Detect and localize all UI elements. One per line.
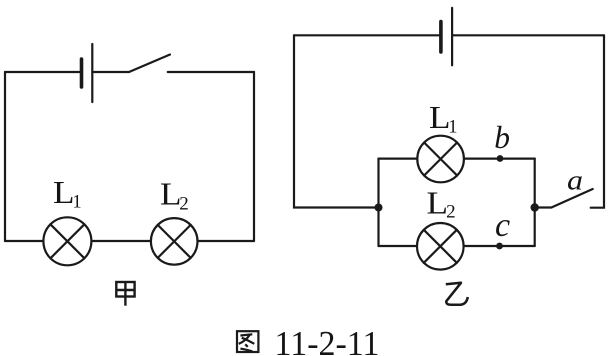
svg-text:b: b — [494, 120, 510, 155]
svg-text:c: c — [495, 207, 510, 244]
svg-text:1: 1 — [72, 193, 81, 213]
svg-text:a: a — [567, 164, 583, 196]
svg-text:1: 1 — [448, 118, 457, 138]
svg-text:2: 2 — [446, 202, 456, 223]
svg-text:2: 2 — [179, 193, 189, 214]
svg-text:11-2-11: 11-2-11 — [275, 324, 380, 356]
svg-text:L: L — [427, 184, 449, 220]
svg-text:L: L — [53, 174, 75, 210]
